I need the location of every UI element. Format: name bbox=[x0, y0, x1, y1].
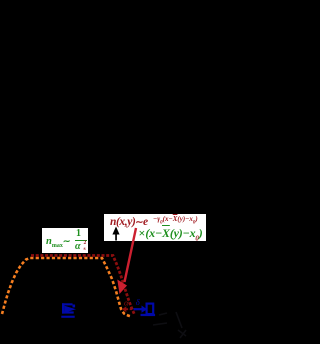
svg-text:δ: δ bbox=[136, 297, 141, 307]
blue underline under square bbox=[141, 314, 156, 316]
dark red left arrow bbox=[122, 306, 127, 312]
formula line 2: x (x - Xbar(y) - x_0) (green) bbox=[139, 226, 203, 241]
pointer arrow from formula box to front (bright red) bbox=[125, 228, 137, 282]
label box nmax: white box for n_max ~ 1/alpha_s^2 bbox=[42, 228, 88, 253]
curve: event front shifted (dark red dashed) bbox=[31, 256, 135, 315]
curve: average front (orange dashed) bbox=[2, 258, 131, 317]
blue square icon bbox=[147, 304, 154, 315]
formula line 1: n(x,y) ~ e^{-gamma_0(x - Xbar(y) - x_0)} (dark red) bbox=[110, 216, 148, 228]
blue right arrow into square bbox=[134, 308, 143, 310]
faint ghost marks (near-black) bottom right bbox=[153, 312, 186, 338]
label text n_max bbox=[46, 236, 70, 247]
black up arrow in formula box bbox=[112, 227, 119, 235]
fraction 1 / alpha_s^2 bbox=[76, 228, 81, 239]
label box formula: white box for n(x,y) formula bbox=[104, 214, 206, 241]
blue nav icon left (frame with right arrow) bbox=[61, 303, 76, 318]
svg-text:α: α bbox=[124, 298, 129, 308]
